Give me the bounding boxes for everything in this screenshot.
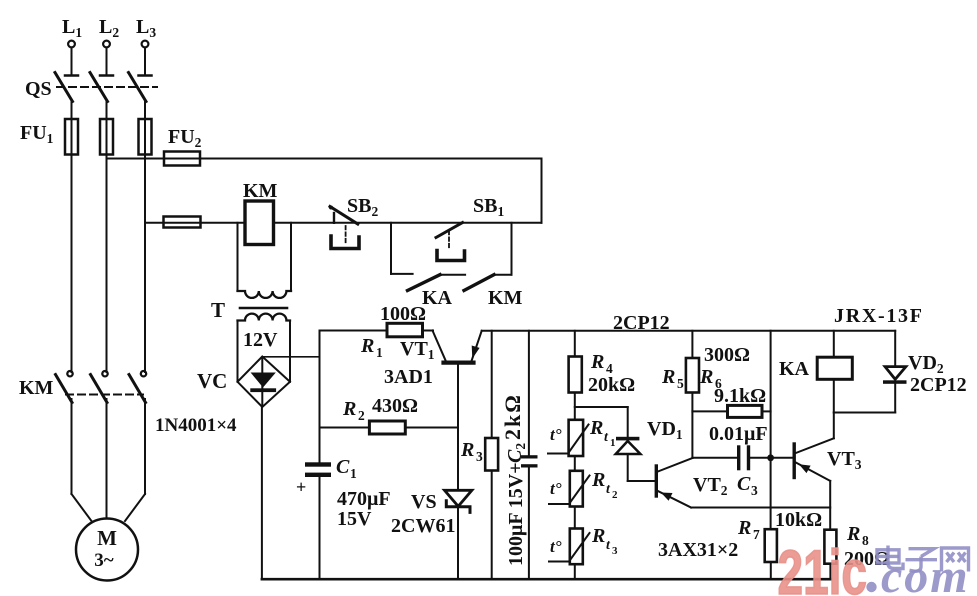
svg-text:3: 3 (612, 545, 618, 557)
transistor VT1 (433, 331, 482, 428)
wire control right drop (541, 159, 543, 223)
resistor R5 column (691, 331, 693, 358)
wire R2 row (320, 427, 370, 429)
fuse FU2 (164, 152, 200, 166)
svg-text:+: + (296, 477, 306, 497)
zener diode VS (445, 490, 472, 512)
svg-text:VC: VC (197, 369, 227, 393)
node C3-R7-VT3 junction (767, 454, 774, 461)
capacitor C2 column (528, 331, 530, 455)
KM coupling dashed link (66, 394, 143, 396)
svg-text:R: R (661, 366, 675, 388)
transformer T primary (238, 291, 292, 298)
svg-text:KA: KA (779, 358, 810, 380)
wire R6 row (692, 410, 727, 412)
svg-text:KM: KM (488, 287, 523, 309)
wire VS column (457, 428, 459, 491)
diode VD2 (883, 331, 907, 413)
capacitor C3 (737, 445, 740, 470)
wire C3 row right (750, 457, 792, 459)
svg-text:QS: QS (25, 78, 52, 100)
svg-text:t°: t° (550, 537, 562, 556)
contact KM auxiliary (464, 275, 494, 291)
node L3 terminal (142, 41, 149, 48)
svg-text:2: 2 (358, 408, 365, 423)
svg-text:KM: KM (243, 180, 278, 202)
svg-text:VS: VS (411, 491, 437, 513)
wire control top from L2 (107, 158, 542, 160)
svg-text:7: 7 (753, 527, 760, 542)
fuse FU1 pole 1 (65, 119, 78, 372)
wire VC minus drop (261, 407, 263, 579)
svg-text:R: R (590, 351, 604, 373)
svg-text:JRX-13F: JRX-13F (834, 305, 924, 327)
svg-text:KM: KM (19, 377, 54, 399)
wire secondary left lead (237, 321, 239, 382)
svg-text:C: C (336, 456, 350, 478)
wire KM branch right riser (511, 223, 513, 275)
wire KA branch stub (391, 273, 413, 275)
svg-text:12V: 12V (243, 329, 278, 351)
svg-text:2kΩ: 2kΩ (500, 393, 525, 440)
wire mid column (770, 331, 772, 529)
QS coupling dashed link (57, 86, 157, 88)
wire left dc rail (319, 331, 321, 463)
svg-text:M: M (97, 526, 117, 550)
svg-text:20kΩ: 20kΩ (588, 374, 635, 396)
switch QS pole 3 (129, 73, 152, 120)
wire T primary left tap (237, 223, 239, 291)
svg-text:3~: 3~ (94, 550, 114, 571)
contactor coil KM (245, 201, 274, 245)
rectifier bridge VC diamond (238, 357, 291, 408)
watermark 21ic red (778, 537, 867, 596)
svg-text:R: R (360, 335, 374, 357)
svg-text:1: 1 (610, 437, 616, 449)
wire emitter bus (691, 507, 830, 509)
svg-text:300Ω: 300Ω (704, 344, 750, 366)
svg-text:5: 5 (677, 376, 684, 391)
watermark wang 网 glyph (942, 548, 969, 572)
wire R1 feed (320, 330, 388, 332)
thermistor Rt3 (549, 529, 590, 580)
svg-text:3: 3 (476, 449, 483, 464)
svg-text:2CP12: 2CP12 (613, 312, 670, 334)
svg-text:KA: KA (422, 287, 453, 309)
fuse FU2 second (164, 217, 201, 228)
wire KA-KM stub (440, 274, 465, 276)
svg-text:2CW61: 2CW61 (391, 515, 455, 537)
resistor R2 (369, 421, 405, 434)
watermark zi 子 glyph (906, 549, 938, 572)
thermistor Rt1 (548, 420, 589, 471)
fuse FU1 pole 2 (100, 119, 113, 372)
svg-text:3AX31×2: 3AX31×2 (658, 539, 738, 561)
wire VD1 to VT2 base (628, 480, 655, 482)
wire VC plus output (262, 356, 319, 358)
svg-text:R: R (589, 417, 603, 439)
wire T primary right tap (290, 223, 292, 291)
thermistor Rt2 (549, 471, 590, 529)
button SB2 normally-closed (329, 206, 359, 249)
svg-text:0.01μF: 0.01μF (709, 423, 768, 445)
transformer T core (240, 307, 287, 310)
resistor R6 (728, 405, 763, 417)
transistor VT3 (794, 413, 834, 530)
svg-text:1N4001×4: 1N4001×4 (155, 415, 237, 436)
svg-text:430Ω: 430Ω (372, 395, 418, 417)
transformer T secondary (238, 314, 291, 321)
resistor R7 (765, 529, 777, 562)
wire R4-VD1 row (575, 406, 628, 408)
motor M circle (76, 519, 138, 581)
svg-text:T: T (211, 298, 225, 322)
capacitor C1 (305, 462, 331, 477)
relay coil KA (817, 331, 852, 413)
contact KM pole 3 (129, 371, 146, 494)
transistor VT2 (656, 458, 692, 508)
watermark period purple (866, 582, 876, 592)
svg-text:21ic: 21ic (778, 537, 867, 596)
wire top rail (482, 330, 896, 332)
svg-text:3AD1: 3AD1 (384, 366, 433, 388)
wire L3 drop (144, 48, 146, 75)
svg-text:R: R (591, 525, 605, 547)
svg-text:10kΩ: 10kΩ (775, 509, 822, 531)
wire motor lead 3 (125, 494, 145, 521)
resistor R8 (824, 530, 836, 564)
resistor R4 column (574, 331, 576, 357)
wire KA-VD2 bottom row (834, 412, 895, 414)
svg-text:3: 3 (751, 483, 758, 498)
wire motor lead 1 (72, 494, 92, 521)
svg-text:470μF: 470μF (337, 488, 391, 510)
wire KM branch stub (494, 274, 512, 276)
svg-text:t°: t° (550, 479, 562, 498)
diode VD1 (616, 407, 641, 481)
contact KA (408, 275, 441, 291)
svg-text:100Ω: 100Ω (380, 303, 426, 325)
wire C3 row left (692, 457, 737, 459)
svg-text:2: 2 (612, 489, 618, 501)
wire secondary right lead (289, 321, 291, 382)
button SB1 normally-open (436, 223, 465, 261)
svg-text:R: R (460, 439, 474, 461)
wire L1 drop (71, 48, 73, 75)
node L2 terminal (103, 41, 110, 48)
wire L2 drop (106, 48, 108, 75)
contact KM pole 1 (56, 371, 73, 494)
fuse FU1 pole 3 (139, 119, 152, 372)
svg-text:9.1kΩ: 9.1kΩ (714, 385, 766, 407)
contact KM pole 2 (91, 371, 108, 519)
svg-text:R: R (342, 398, 356, 420)
node L1 terminal (68, 41, 75, 48)
switch QS pole 2 (90, 73, 113, 120)
resistor R1 (387, 323, 423, 337)
wire control second from L3 (145, 222, 542, 224)
watermark dianzi 电 glyph (877, 546, 903, 569)
svg-text:R: R (591, 469, 605, 491)
svg-text:2CP12: 2CP12 (910, 374, 967, 396)
svg-text:R: R (699, 366, 713, 388)
wire KA branch left drop (390, 223, 392, 274)
svg-text:15V: 15V (337, 508, 372, 530)
resistor R3 column (491, 331, 493, 438)
svg-text:100μF 15V+: 100μF 15V+ (505, 462, 527, 566)
wire bottom rail (262, 578, 831, 581)
switch QS pole 1 (55, 73, 78, 120)
svg-text:1: 1 (376, 345, 383, 360)
svg-text:R: R (737, 517, 751, 539)
svg-text:t°: t° (550, 425, 562, 444)
svg-text:C: C (737, 473, 751, 495)
svg-text:1: 1 (350, 466, 357, 481)
rectifier VC inner diode (250, 358, 276, 406)
